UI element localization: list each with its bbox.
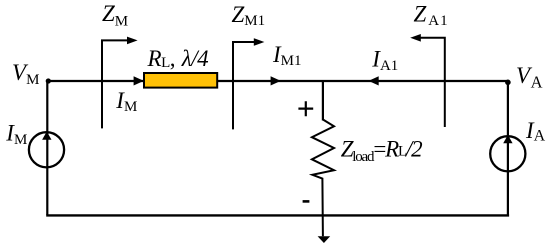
svg-text:RL, λ/4: RL, λ/4: [147, 46, 209, 71]
